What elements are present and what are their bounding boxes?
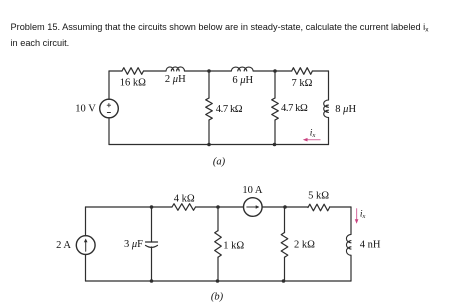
resistor 4.7 kOhm left, vertical <box>206 71 213 145</box>
svg-text:(b): (b) <box>211 292 224 303</box>
voltage source 10 V <box>100 99 119 118</box>
value label 7 kOhm <box>292 78 313 89</box>
svg-text:3 μF: 3 μF <box>124 239 143 250</box>
svg-text:2 kΩ: 2 kΩ <box>294 240 315 251</box>
resistor 4 kOhm <box>172 204 196 211</box>
value label 3 uF <box>124 239 143 250</box>
current label ix circuit (a) <box>310 129 316 140</box>
value label 6 uH <box>232 75 253 86</box>
svg-text:1 kΩ: 1 kΩ <box>223 240 244 251</box>
wire: circuit (b) bottom wire <box>86 280 352 282</box>
value label 10 V <box>75 103 96 114</box>
value label 4.7 kOhm right <box>281 103 308 114</box>
svg-text:4 kΩ: 4 kΩ <box>174 194 195 205</box>
value label 5 kOhm <box>308 191 329 202</box>
wire: circuit (b) top wire segments <box>86 206 352 208</box>
node junction dots circuit (b) <box>150 205 287 283</box>
resistor 2 kOhm, vertical <box>281 207 288 281</box>
svg-text:10 A: 10 A <box>242 185 263 196</box>
subfigure label (a) <box>213 156 226 167</box>
current source 10 A <box>244 198 263 217</box>
capacitor 3 uF <box>146 207 158 281</box>
subfigure label (b) <box>211 292 224 303</box>
svg-text:4.7 kΩ: 4.7 kΩ <box>216 104 243 115</box>
resistor 1 kOhm, vertical <box>215 207 222 281</box>
svg-text:4.7 kΩ: 4.7 kΩ <box>281 103 308 114</box>
inductor 4 nH, vertical <box>346 207 351 281</box>
value label 16 kOhm <box>120 77 146 88</box>
svg-text:16 kΩ: 16 kΩ <box>120 77 146 88</box>
current label ix circuit (b) <box>360 209 366 220</box>
svg-text:6 μH: 6 μH <box>232 75 253 86</box>
value label 10 A <box>242 185 263 196</box>
value label 1 kOhm <box>223 240 244 251</box>
resistor 16 kOhm <box>122 68 144 75</box>
resistor 7 kOhm <box>292 68 313 75</box>
svg-text:7 kΩ: 7 kΩ <box>292 78 313 89</box>
current arrow ix circuit (a) <box>303 138 321 142</box>
svg-text:4 nH: 4 nH <box>360 240 381 251</box>
inductor 8 uH, vertical <box>324 71 329 145</box>
svg-text:(a): (a) <box>213 156 226 167</box>
value label 2 A <box>56 240 71 251</box>
svg-text:10 V: 10 V <box>75 103 96 114</box>
svg-text:2 μH: 2 μH <box>165 74 186 85</box>
wire: circuit (b) left branch <box>85 207 87 281</box>
value label 4 kOhm <box>174 194 195 205</box>
current arrow ix circuit (b) <box>355 208 359 224</box>
current source 2 A <box>76 236 95 255</box>
value label 2 kOhm <box>294 240 315 251</box>
value label 4.7 kOhm left <box>216 104 243 115</box>
value label 4 nH <box>360 240 381 251</box>
wire: circuit (a) bottom wire <box>109 144 329 146</box>
svg-text:ix: ix <box>310 129 316 140</box>
inductor 6 uH <box>231 67 253 71</box>
svg-text:8 μH: 8 μH <box>335 104 356 115</box>
svg-text:5 kΩ: 5 kΩ <box>308 191 329 202</box>
wire: circuit (a) left branch with source stubs <box>108 71 110 145</box>
node junction dots circuit (a) <box>207 69 277 146</box>
svg-text:ix: ix <box>360 209 366 220</box>
resistor 4.7 kOhm right, vertical <box>272 71 279 145</box>
resistor 5 kOhm <box>308 204 330 211</box>
value label 2 uH <box>165 74 186 85</box>
wire: circuit (a) top wire segments <box>109 70 329 72</box>
svg-text:2 A: 2 A <box>56 240 71 251</box>
value label 8 uH <box>335 104 356 115</box>
inductor 2 uH <box>166 67 184 71</box>
